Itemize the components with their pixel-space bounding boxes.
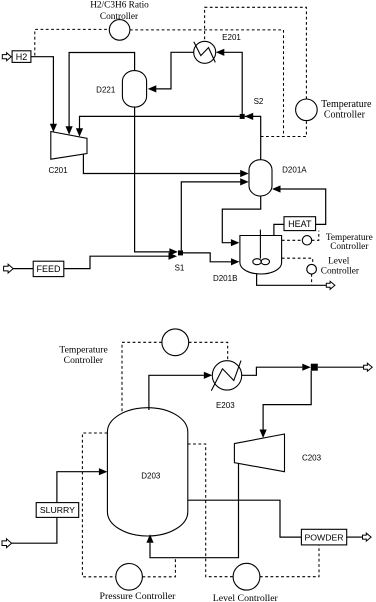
label: Temperature Controller (top right) <box>321 99 372 121</box>
arrow into C201 from D221 overhead <box>66 126 73 135</box>
controller PC1 pressure controller circle <box>116 564 143 591</box>
svg-text:Controller: Controller <box>330 242 369 252</box>
svg-text:E203: E203 <box>216 401 235 410</box>
arrow into D201B upper inlet <box>231 239 240 246</box>
agitator shaft D201B <box>259 230 261 259</box>
svg-text:D203: D203 <box>141 471 161 480</box>
wire: FEED box to node S1 <box>64 256 169 268</box>
wire: E201 outlet to D221 inlet <box>156 52 194 89</box>
controller TC2 temperature controller circle (at D201B) <box>302 236 311 245</box>
inlet arrow FEED <box>4 264 14 273</box>
svg-text:H2/C3H6 Ratio: H2/C3H6 Ratio <box>90 0 149 10</box>
arrow into E201 right side pointing left <box>216 49 225 56</box>
svg-text:Temperature: Temperature <box>321 99 372 110</box>
signal wire: D201B temperature sensor (dashed) <box>282 239 303 241</box>
vessel D201A <box>249 160 272 196</box>
svg-text:Controller: Controller <box>64 355 104 366</box>
box FEED <box>33 261 64 276</box>
arrow into C203 top <box>260 430 267 439</box>
wire: H2 box to compressor C201 <box>31 57 54 128</box>
arrow into D201B lower inlet <box>231 258 240 265</box>
arrow into D201A right side from HEAT pointing left <box>272 185 281 192</box>
box H2 <box>12 51 31 63</box>
svg-text:S2: S2 <box>254 97 264 106</box>
arrow into D201A upper inlet <box>240 170 249 177</box>
svg-text:Controller: Controller <box>321 266 360 276</box>
E201 zigzag <box>194 42 216 63</box>
label: Temperature Controller (at D201B) <box>326 233 373 252</box>
signal wire: LC1 to product line valve (dashed) <box>311 274 313 285</box>
heat exchanger E201 <box>194 41 216 63</box>
wire: D201A bottoms to D201B upper inlet <box>222 196 260 243</box>
label: Temperature Controller (bottom left) <box>59 345 107 366</box>
inlet arrow SLURRY <box>2 539 12 548</box>
wire: feed arrow to FEED box <box>13 268 33 270</box>
box SLURRY <box>36 503 78 518</box>
signal wire: ratio controller to H2 feed line (dashed) <box>35 29 110 55</box>
agitator impeller left <box>253 259 261 265</box>
svg-text:H2: H2 <box>16 52 28 62</box>
arrow into D221 right side pointing left <box>148 85 157 92</box>
signal wire: PC1 to C203 outlet line (dashed) <box>142 558 175 577</box>
arrow into E203 left side <box>204 372 213 379</box>
signal wire: temperature controller to E201 (dashed) <box>205 7 307 99</box>
arrow into C201 from S2 recycle <box>76 128 83 137</box>
svg-text:Controller: Controller <box>100 12 139 22</box>
wire: HEAT to D201B top <box>274 224 284 235</box>
label: Level Controller (at D201B) <box>321 257 360 277</box>
compressor C203 <box>234 434 284 472</box>
wire: D221 overhead to compressor C201 <box>69 53 135 131</box>
svg-text:Level Controller: Level Controller <box>213 593 279 602</box>
svg-text:D201A: D201A <box>282 165 307 174</box>
wire: SLURRY box to D203 inlet <box>57 472 99 503</box>
outlet arrow powder product <box>363 533 372 541</box>
signal wire: D203 level sensor (dashed) <box>188 444 233 577</box>
wire: node S1 up to D201A lower inlet <box>181 182 244 251</box>
vessel D203 <box>107 408 187 536</box>
node S1 square <box>178 250 183 255</box>
wire: vent node to outlet arrow <box>318 366 364 368</box>
vessel D221 <box>122 71 146 108</box>
signal wire: TC2 to HEAT (dashed) <box>312 231 319 241</box>
inlet arrow H2 feed <box>2 53 11 61</box>
controller LC2 level controller circle <box>233 563 260 590</box>
signal wire: TC3 to D203 top (dashed) <box>122 342 162 413</box>
wire: C201 outlet to D201A upper inlet <box>83 154 244 174</box>
svg-text:C201: C201 <box>48 166 68 175</box>
box HEAT <box>284 217 316 231</box>
svg-text:Controller: Controller <box>324 109 366 120</box>
svg-text:FEED: FEED <box>36 264 61 274</box>
controller LC1 level controller circle (at D201B) <box>307 264 317 274</box>
wire: vent node down to compressor C203 <box>263 371 311 430</box>
arrow into D203 bottom pointing up <box>146 534 153 543</box>
svg-text:C203: C203 <box>302 454 322 463</box>
E203 zigzag <box>211 361 241 391</box>
arrow into S1 from FEED <box>169 253 178 260</box>
signal wire: LC2 to POWDER valve (dashed) <box>260 545 319 577</box>
arrow into S1 from D221 bottoms <box>169 248 178 255</box>
wire: node S2 recycle to compressor C201 <box>80 116 240 132</box>
wire: slurry inlet to SLURRY box <box>12 517 57 543</box>
svg-text:D201B: D201B <box>213 274 237 283</box>
controller TC3 temperature controller circle (bottom) <box>162 329 189 356</box>
heat exchanger E203 <box>212 361 241 390</box>
svg-text:SLURRY: SLURRY <box>40 505 75 515</box>
svg-text:E201: E201 <box>222 33 241 42</box>
wire: D203 bottoms to POWDER box <box>188 500 302 537</box>
arrow into D201A lower inlet <box>240 178 249 185</box>
arrow into D203 left side <box>99 468 108 475</box>
vent node square <box>311 364 318 371</box>
wire: D203 overhead to E203 <box>149 375 204 410</box>
controller TC1 temperature controller circle (top right) <box>296 99 318 121</box>
signal wire: temperature sensor on D201A inlet pipe (dashed) <box>261 121 307 137</box>
wire: D201B bottoms product line <box>257 273 327 285</box>
svg-text:Level: Level <box>328 257 350 267</box>
svg-text:Pressure Controller: Pressure Controller <box>100 591 177 602</box>
arrow into C201 from H2 line <box>50 124 57 133</box>
arrow into node S2 pointing left <box>245 113 254 120</box>
wire: C203 outlet to D203 bottom <box>150 464 239 558</box>
svg-text:S1: S1 <box>175 263 185 272</box>
reactor D201B <box>240 236 282 275</box>
outlet arrow overhead product <box>364 363 373 371</box>
wire: HEAT to D201A right side <box>281 189 326 224</box>
wire: POWDER box to outlet <box>347 536 363 538</box>
signal wire: ratio controller to D201A feed pipe (dashed) <box>130 30 284 137</box>
compressor C201 <box>51 132 87 160</box>
wire: node S1 to reactor D201B lower inlet <box>183 253 235 262</box>
arrow into vent node <box>302 364 311 371</box>
svg-text:Temperature: Temperature <box>59 345 107 356</box>
signal wire: D203 pressure sensor (dashed) <box>82 433 115 577</box>
controller RC1 H2/C3H6 ratio controller circle <box>109 20 130 41</box>
outlet arrow D201B product <box>326 281 335 289</box>
label: H2/C3H6 Ratio Controller title <box>90 0 149 21</box>
svg-text:POWDER: POWDER <box>304 533 343 543</box>
node S2 square <box>240 114 245 119</box>
wire: D221 bottoms to node S1 <box>135 107 170 252</box>
agitator impeller right <box>261 259 269 265</box>
wire: node S2 up to E201 <box>224 52 242 114</box>
box POWDER <box>301 529 346 545</box>
svg-text:D221: D221 <box>96 86 116 95</box>
svg-text:HEAT: HEAT <box>288 219 312 229</box>
signal wire: TC3 to E203 (dashed) <box>189 342 228 360</box>
wire: E203 outlet to vent node <box>242 367 303 375</box>
signal wire: D201B level sensor (dashed) <box>282 258 313 264</box>
wire: D201A overhead up to node S2 <box>245 116 261 159</box>
